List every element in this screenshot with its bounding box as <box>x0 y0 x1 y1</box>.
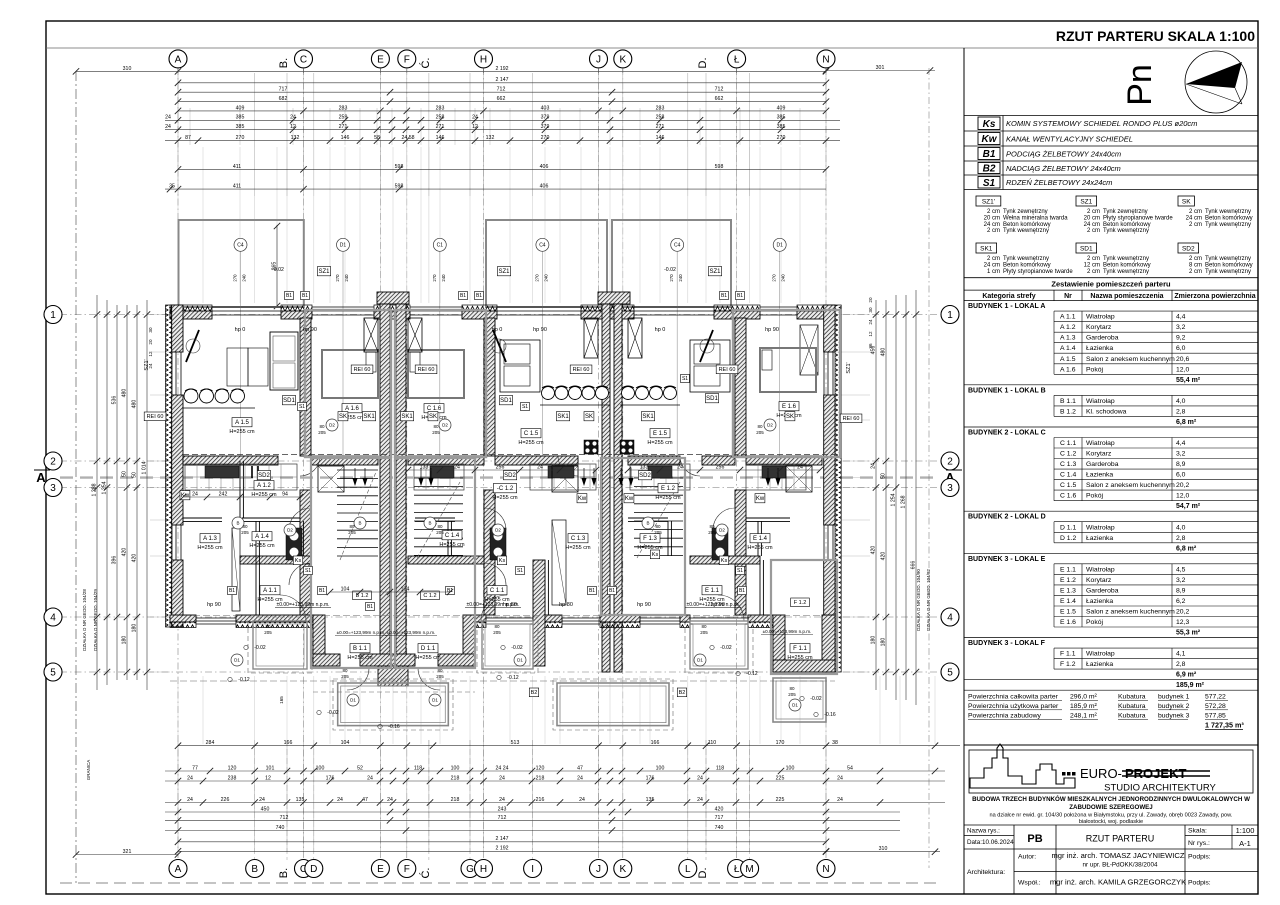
svg-text:146: 146 <box>436 135 445 141</box>
svg-text:B1: B1 <box>447 588 453 594</box>
svg-text:Kubatura: Kubatura <box>1118 713 1146 720</box>
svg-text:E 1.5: E 1.5 <box>1060 609 1076 616</box>
svg-text:8,9: 8,9 <box>1176 461 1186 468</box>
svg-text:270: 270 <box>541 135 550 141</box>
svg-text:C 1.4: C 1.4 <box>1060 472 1076 479</box>
stairs building 2 <box>414 477 463 479</box>
svg-text:24 cm: 24 cm <box>984 222 1000 228</box>
svg-text:409: 409 <box>777 105 786 111</box>
svg-text:E 1.6: E 1.6 <box>1060 619 1076 626</box>
svg-text:80: 80 <box>437 668 443 673</box>
stairs building 1 <box>337 469 378 471</box>
svg-text:47: 47 <box>362 797 368 803</box>
svg-text:180: 180 <box>131 624 137 633</box>
svg-text:BUDYNEK 1 - LOKAL B: BUDYNEK 1 - LOKAL B <box>968 387 1046 394</box>
REI60 outline core B <box>311 458 391 668</box>
svg-text:Pokój: Pokój <box>1086 493 1103 500</box>
svg-text:205: 205 <box>708 530 716 535</box>
grid bubbles bottom <box>169 860 187 878</box>
svg-text:D1: D1 <box>792 703 798 708</box>
svg-text:E 1.2: E 1.2 <box>1060 577 1076 584</box>
svg-text:NADCIĄG ŻELBETOWY 24x40cm: NADCIĄG ŻELBETOWY 24x40cm <box>1006 164 1121 173</box>
svg-text:budynek 2: budynek 2 <box>1158 703 1190 710</box>
table building1 <box>248 348 268 386</box>
svg-text:-0.02: -0.02 <box>664 267 676 273</box>
svg-text:SK1: SK1 <box>980 246 993 253</box>
svg-text:Architektura:: Architektura: <box>967 869 1005 876</box>
svg-text:20,6: 20,6 <box>1176 356 1189 363</box>
svg-text:H=255 cm: H=255 cm <box>787 655 813 661</box>
svg-text:218: 218 <box>451 775 460 781</box>
svg-text:12: 12 <box>148 351 153 357</box>
svg-text:2 cm: 2 cm <box>987 228 1000 234</box>
svg-text:±0.00=+123,99m n.p.m.: ±0.00=+123,99m n.p.m. <box>466 602 519 608</box>
svg-text:2 147: 2 147 <box>496 836 509 842</box>
svg-text:385: 385 <box>777 124 786 130</box>
svg-text:Nazwa rys.:: Nazwa rys.: <box>967 828 1000 835</box>
svg-text:SK: SK <box>786 414 794 420</box>
tag SD2 <box>257 471 270 480</box>
wardrobe C1.3 <box>552 520 566 605</box>
svg-text:±0.00=+123,99m n.p.m.: ±0.00=+123,99m n.p.m. <box>387 630 436 635</box>
svg-text:379: 379 <box>541 124 550 130</box>
svg-text:SD2: SD2 <box>1182 246 1195 253</box>
wall type specs <box>976 196 1001 206</box>
svg-text:SK: SK <box>1182 199 1191 206</box>
svg-text:S1: S1 <box>305 568 311 574</box>
svg-text:80: 80 <box>265 624 271 629</box>
svg-text:A 1.1: A 1.1 <box>1060 314 1076 321</box>
svg-text:283: 283 <box>436 105 445 111</box>
svg-text:B1: B1 <box>286 293 292 299</box>
svg-text:S1: S1 <box>983 178 996 189</box>
svg-text:PODCIĄG ŻELBETOWY 24x40cm: PODCIĄG ŻELBETOWY 24x40cm <box>1006 150 1121 159</box>
svg-text:Łazienka: Łazienka <box>1086 661 1113 668</box>
svg-text:270: 270 <box>432 274 437 282</box>
left exterior wall <box>166 305 172 627</box>
svg-text:Korytarz: Korytarz <box>1086 577 1112 584</box>
interior wall H building2 <box>484 318 495 456</box>
svg-text:DZIAŁKA O NR GEOD. 104/92: DZIAŁKA O NR GEOD. 104/92 <box>926 569 931 631</box>
svg-text:24: 24 <box>837 775 843 781</box>
svg-text:35: 35 <box>169 184 175 190</box>
svg-text:166: 166 <box>651 740 660 746</box>
room label E1.4 <box>750 534 770 543</box>
svg-text:205: 205 <box>436 530 444 535</box>
right dimension chains <box>875 300 877 690</box>
svg-text:5: 5 <box>947 668 953 679</box>
svg-text:SZ1: SZ1 <box>318 269 330 275</box>
svg-text:SD2: SD2 <box>639 473 651 479</box>
kitchen counter building3 <box>630 464 690 490</box>
svg-text:Nr rys.:: Nr rys.: <box>1188 840 1210 847</box>
svg-text:406: 406 <box>540 164 549 170</box>
svg-text:B1: B1 <box>983 149 996 160</box>
svg-text:K: K <box>619 55 626 66</box>
svg-text:Beton komórkowy: Beton komórkowy <box>1205 215 1253 221</box>
svg-text:176: 176 <box>326 775 335 781</box>
svg-text:Kategoria strefy: Kategoria strefy <box>982 293 1035 300</box>
svg-text:BUDYNEK 3 - LOKAL F: BUDYNEK 3 - LOKAL F <box>968 640 1046 647</box>
tag B1 bottom <box>228 586 237 594</box>
svg-text:Salon z aneksem kuchennym: Salon z aneksem kuchennym <box>1086 609 1175 616</box>
svg-text:KOMIN SYSTEMOWY SCHIEDEL RONDO: KOMIN SYSTEMOWY SCHIEDEL RONDO PLUS ø20c… <box>1006 119 1197 128</box>
svg-text:D.: D. <box>697 868 709 879</box>
svg-text:225: 225 <box>776 775 785 781</box>
svg-text:A 1.5: A 1.5 <box>1060 356 1076 363</box>
svg-text:283: 283 <box>656 105 665 111</box>
svg-text:A 1.1: A 1.1 <box>263 588 277 594</box>
svg-text:740: 740 <box>715 825 724 831</box>
left dimension chains <box>96 295 98 690</box>
svg-text:Skala:: Skala: <box>1188 828 1207 835</box>
svg-text:240: 240 <box>678 274 683 282</box>
svg-text:Pokój: Pokój <box>1086 619 1103 626</box>
svg-text:-0.02: -0.02 <box>511 645 523 651</box>
svg-text:SK1: SK1 <box>363 414 375 420</box>
porch building3 <box>773 678 826 722</box>
svg-text:B 1.1: B 1.1 <box>353 646 368 652</box>
tag B1 pairs top wall <box>285 291 294 299</box>
svg-text:284: 284 <box>206 740 215 746</box>
svg-text:Ks: Ks <box>983 119 996 130</box>
svg-text:104: 104 <box>341 586 350 592</box>
svg-text:50: 50 <box>880 473 886 479</box>
svg-text:1 268: 1 268 <box>900 495 906 508</box>
svg-text:20: 20 <box>148 339 153 345</box>
room label E1.1 <box>702 586 722 595</box>
svg-text:205: 205 <box>788 692 796 697</box>
svg-text:12: 12 <box>472 124 478 130</box>
kitchen counter building2a <box>414 464 464 490</box>
svg-text:58: 58 <box>374 135 380 141</box>
room label D1.1 <box>418 644 438 653</box>
svg-text:Płyty styropianowe twarde: Płyty styropianowe twarde <box>1003 269 1073 275</box>
svg-text:205: 205 <box>341 674 349 679</box>
interior wall L building3 <box>735 318 746 456</box>
svg-text:Korytarz: Korytarz <box>1086 324 1112 331</box>
svg-text:Wiatrołap: Wiatrołap <box>1086 651 1115 658</box>
terrace building 2 <box>486 220 607 307</box>
svg-text:420: 420 <box>880 552 886 561</box>
svg-text:666: 666 <box>910 561 916 570</box>
svg-text:24: 24 <box>837 797 843 803</box>
svg-text:PROJEKT: PROJEKT <box>1125 766 1186 781</box>
svg-text:D 1.1: D 1.1 <box>421 646 436 652</box>
svg-text:REI 60: REI 60 <box>573 367 590 373</box>
svg-text:Ł: Ł <box>734 55 740 66</box>
svg-text:20 cm: 20 cm <box>984 215 1000 221</box>
svg-text:662: 662 <box>715 96 724 102</box>
room label A1.1 <box>260 586 280 595</box>
svg-text:406: 406 <box>540 184 549 190</box>
stair core building2 side <box>533 560 545 666</box>
svg-text:REI 60: REI 60 <box>843 416 860 422</box>
building3 entry core <box>773 615 785 672</box>
svg-text:B: B <box>358 521 361 526</box>
svg-text:2 cm: 2 cm <box>1087 256 1100 262</box>
svg-text:SD2: SD2 <box>504 473 516 479</box>
svg-text:20,2: 20,2 <box>1176 609 1189 616</box>
svg-text:2,8: 2,8 <box>1176 408 1186 415</box>
svg-text:2 cm: 2 cm <box>987 209 1000 215</box>
svg-text:712: 712 <box>497 87 506 93</box>
svg-text:Kubatura: Kubatura <box>1118 694 1146 701</box>
svg-text:SK1: SK1 <box>401 414 413 420</box>
svg-text:Wiatrołap: Wiatrołap <box>1086 440 1115 447</box>
svg-text:B1: B1 <box>609 588 615 594</box>
svg-text:SZ1: SZ1 <box>1080 199 1092 206</box>
svg-text:30: 30 <box>868 307 873 313</box>
svg-text:D1: D1 <box>234 658 240 663</box>
svg-text:hp 90: hp 90 <box>765 327 779 333</box>
svg-text:379: 379 <box>541 115 550 121</box>
svg-text:Tynk zewnętrzny: Tynk zewnętrzny <box>1003 209 1048 215</box>
room label C1.2 <box>493 484 516 493</box>
svg-text:20: 20 <box>868 297 873 303</box>
svg-text:712: 712 <box>715 87 724 93</box>
tag S1 <box>298 402 307 410</box>
svg-text:1 cm: 1 cm <box>987 269 1000 275</box>
svg-text:2 cm: 2 cm <box>1087 209 1100 215</box>
stairs building 3 <box>634 477 683 479</box>
svg-text:B2: B2 <box>679 690 686 696</box>
svg-text:55,4 m²: 55,4 m² <box>1176 377 1201 384</box>
REI60 outline bedroom E1.6 <box>733 310 840 457</box>
svg-text:577,22: 577,22 <box>1205 694 1226 701</box>
svg-text:PB: PB <box>1027 833 1042 845</box>
svg-text:E 1.1: E 1.1 <box>705 588 720 594</box>
svg-text:24 cm: 24 cm <box>984 262 1000 268</box>
svg-text:B1: B1 <box>737 293 743 299</box>
svg-text:271: 271 <box>656 124 665 130</box>
svg-text:2 cm: 2 cm <box>987 256 1000 262</box>
svg-text:budynek 3: budynek 3 <box>1158 713 1190 720</box>
svg-text:hp 90: hp 90 <box>207 602 221 608</box>
svg-text:4: 4 <box>50 613 56 624</box>
svg-text:94: 94 <box>282 491 288 497</box>
svg-text:77: 77 <box>192 765 198 771</box>
room label A1.2 <box>254 481 274 490</box>
svg-text:A 1.5: A 1.5 <box>235 420 249 426</box>
svg-text:80: 80 <box>709 524 715 529</box>
svg-text:C 1.6: C 1.6 <box>427 406 442 412</box>
svg-text:24: 24 <box>797 464 803 470</box>
room label E1.6 <box>779 402 799 411</box>
svg-text:H=255 cm: H=255 cm <box>647 440 673 446</box>
svg-text:104: 104 <box>401 586 410 592</box>
shaft X party wall 2 right <box>628 318 642 358</box>
svg-text:SK: SK <box>339 414 347 420</box>
kitchen counter building2b <box>530 464 596 490</box>
svg-text:J: J <box>596 55 601 66</box>
tag B2 <box>529 688 538 697</box>
svg-text:Korytarz: Korytarz <box>1086 451 1112 458</box>
chimney block top 1 <box>377 292 409 304</box>
svg-text:1 727,35 m³: 1 727,35 m³ <box>1205 721 1244 730</box>
svg-text:H=255 cm: H=255 cm <box>415 655 441 661</box>
svg-text:F: F <box>404 864 410 875</box>
svg-text:6,0: 6,0 <box>1176 345 1186 352</box>
svg-text:80: 80 <box>789 686 795 691</box>
svg-text:240: 240 <box>781 274 786 282</box>
svg-text:E 1.3: E 1.3 <box>1060 587 1076 594</box>
svg-text:240: 240 <box>441 274 446 282</box>
svg-text:2 147: 2 147 <box>496 77 509 83</box>
stove building3 <box>620 440 634 454</box>
svg-text:na działce nr ewid. gr. 104/30: na działce nr ewid. gr. 104/30 położona … <box>990 813 1233 819</box>
svg-text:24: 24 <box>868 319 873 325</box>
interior dims <box>183 496 300 498</box>
svg-text:2,8: 2,8 <box>1176 661 1186 668</box>
svg-text:D1: D1 <box>350 698 356 703</box>
tag REI60 <box>351 365 373 374</box>
svg-text:STUDIO ARCHITEKTURY: STUDIO ARCHITEKTURY <box>1104 783 1216 794</box>
svg-text:H=255 cm: H=255 cm <box>655 495 681 501</box>
svg-text:D 1.1: D 1.1 <box>1060 524 1076 531</box>
svg-text:N: N <box>822 55 829 66</box>
svg-text:513: 513 <box>511 740 520 746</box>
svg-text:216: 216 <box>536 797 545 803</box>
svg-text:Podpis:: Podpis: <box>1188 854 1211 861</box>
svg-text:310: 310 <box>123 66 132 72</box>
svg-text:409: 409 <box>236 105 245 111</box>
svg-text:385: 385 <box>236 115 245 121</box>
svg-text:Tynk wewnętrzny: Tynk wewnętrzny <box>1205 269 1251 275</box>
room label E1.2 <box>658 484 678 493</box>
svg-text:C1: C1 <box>437 243 444 249</box>
top wall window lines <box>212 306 281 308</box>
svg-text:Kw: Kw <box>625 496 634 502</box>
svg-text:270: 270 <box>777 135 786 141</box>
svg-text:E 1.6: E 1.6 <box>782 404 797 410</box>
grid bubbles top <box>169 50 187 68</box>
svg-text:A 1.3: A 1.3 <box>1060 335 1076 342</box>
svg-text:2: 2 <box>947 457 953 468</box>
svg-text:450: 450 <box>261 806 270 812</box>
svg-text:205: 205 <box>264 630 272 635</box>
svg-text:717: 717 <box>279 87 288 93</box>
svg-text:-0.02: -0.02 <box>272 267 284 273</box>
svg-text:205: 205 <box>436 674 444 679</box>
svg-text:C 1.2: C 1.2 <box>1060 451 1076 458</box>
svg-text:S1: S1 <box>522 404 528 410</box>
svg-text:480: 480 <box>131 400 137 409</box>
svg-text:420: 420 <box>131 554 137 563</box>
svg-text:270: 270 <box>335 274 340 282</box>
svg-text:-0.12: -0.12 <box>746 671 758 677</box>
svg-text:205: 205 <box>348 530 356 535</box>
svg-text:30: 30 <box>148 327 153 333</box>
door arcs <box>289 508 311 530</box>
svg-text:24: 24 <box>187 775 193 781</box>
svg-text:24: 24 <box>192 491 198 497</box>
svg-text:396: 396 <box>111 556 117 565</box>
svg-text:Tynk wewnętrzny: Tynk wewnętrzny <box>1205 256 1251 262</box>
svg-text:24: 24 <box>387 797 393 803</box>
svg-text:L: L <box>685 864 691 875</box>
svg-text:SK1: SK1 <box>557 414 569 420</box>
svg-text:E 1.4: E 1.4 <box>1060 598 1076 605</box>
grid row lines <box>60 314 940 316</box>
shower building3 <box>786 466 812 492</box>
svg-text:F 1.2: F 1.2 <box>1060 661 1076 668</box>
svg-text:24: 24 <box>367 775 373 781</box>
svg-text:-0.16: -0.16 <box>824 712 836 718</box>
svg-text:S1: S1 <box>682 376 688 382</box>
room label C1.3 <box>568 534 588 543</box>
svg-text:SK: SK <box>585 414 593 420</box>
svg-text:C 1.6: C 1.6 <box>1060 493 1076 500</box>
room label B1.2 <box>353 591 372 600</box>
svg-text:2,8: 2,8 <box>1176 535 1186 542</box>
svg-text:4,0: 4,0 <box>1176 398 1186 405</box>
svg-text:2: 2 <box>50 457 56 468</box>
svg-text:budynek 1: budynek 1 <box>1158 694 1190 701</box>
svg-text:A 1.6: A 1.6 <box>345 406 359 412</box>
svg-text:52: 52 <box>357 765 363 771</box>
svg-text:24: 24 <box>697 797 703 803</box>
svg-text:Kw: Kw <box>982 134 998 145</box>
svg-text:598: 598 <box>715 164 724 170</box>
svg-text:Łazienka: Łazienka <box>1086 535 1113 542</box>
svg-text:Salon z aneksem kuchennym: Salon z aneksem kuchennym <box>1086 482 1175 489</box>
svg-text:H=255 cm: H=255 cm <box>197 545 223 551</box>
svg-text:24: 24 <box>499 775 505 781</box>
svg-text:C 1.2: C 1.2 <box>423 593 436 599</box>
svg-text:248,1 m²: 248,1 m² <box>1070 713 1098 720</box>
interior wall C building1 <box>300 318 311 456</box>
grid extension lines <box>177 68 179 868</box>
svg-text:24: 24 <box>337 797 343 803</box>
room label C1.1 <box>487 586 507 595</box>
svg-text:±0.00=+123,99m n.p.m.: ±0.00=+123,99m n.p.m. <box>763 629 812 634</box>
svg-text:SK: SK <box>429 414 437 420</box>
svg-text:185,9 m²: 185,9 m² <box>1070 703 1098 710</box>
svg-text:3: 3 <box>50 483 56 494</box>
svg-text:24: 24 <box>537 464 543 470</box>
svg-text:12,0: 12,0 <box>1176 366 1189 373</box>
svg-text:4,0: 4,0 <box>1176 524 1186 531</box>
svg-text:hp 90: hp 90 <box>533 327 547 333</box>
svg-text:271: 271 <box>436 124 445 130</box>
svg-text:9,2: 9,2 <box>1176 335 1186 342</box>
svg-text:270: 270 <box>669 274 674 282</box>
svg-text:SD1: SD1 <box>1080 246 1093 253</box>
shower building1 <box>318 466 344 492</box>
svg-text:SD1: SD1 <box>706 396 718 402</box>
svg-text:2 cm: 2 cm <box>1087 269 1100 275</box>
room label C1.5 <box>521 429 541 438</box>
svg-text:H=255 cm: H=255 cm <box>229 429 255 435</box>
svg-text:C 1.3: C 1.3 <box>1060 461 1076 468</box>
svg-text:50: 50 <box>121 471 127 477</box>
svg-text:577,85: 577,85 <box>1205 713 1226 720</box>
svg-text:420: 420 <box>870 546 876 555</box>
svg-text:536: 536 <box>111 396 117 405</box>
bottom exterior wall left rooms <box>170 615 196 622</box>
svg-text:B1: B1 <box>460 293 466 299</box>
svg-text:598: 598 <box>395 184 404 190</box>
bath fixtures building1 <box>286 528 302 560</box>
svg-text:270: 270 <box>233 274 238 282</box>
svg-text:480: 480 <box>880 348 886 357</box>
svg-text:C 1.5: C 1.5 <box>1060 482 1076 489</box>
svg-text:SZ1: SZ1 <box>709 269 721 275</box>
svg-text:E 1.4: E 1.4 <box>753 536 768 542</box>
svg-text:H=255 cm: H=255 cm <box>747 545 773 551</box>
svg-text:BUDYNEK 2 - LOKAL D: BUDYNEK 2 - LOKAL D <box>968 514 1046 521</box>
